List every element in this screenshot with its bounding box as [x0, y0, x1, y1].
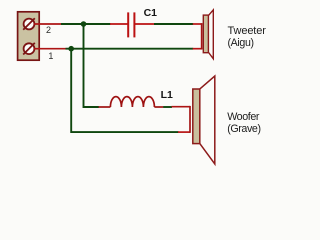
svg-text:Woofer: Woofer	[227, 111, 260, 123]
pin stub terminal 2	[34, 23, 61, 25]
pin stub terminal 1	[34, 48, 66, 50]
loudspeaker tweeter symbol	[202, 10, 214, 59]
woofer pin plus	[172, 106, 191, 108]
svg-text:(Aigu): (Aigu)	[228, 37, 254, 49]
svg-text:(Grave): (Grave)	[227, 123, 260, 135]
inductor L1	[99, 97, 164, 107]
terminal J1 screw 1	[23, 43, 35, 55]
wire C1 to tweeter plus	[154, 23, 193, 25]
junction node B	[68, 46, 74, 52]
wire node A down and across to L1	[84, 24, 99, 107]
terminal block J1 body	[18, 12, 40, 60]
junction node A	[81, 21, 87, 27]
wire terminal1 to tweeter minus	[66, 48, 194, 50]
svg-text:1: 1	[48, 51, 53, 61]
woofer pin minus	[178, 131, 190, 133]
tweeter pin minus	[193, 48, 203, 50]
svg-text:C1: C1	[144, 7, 158, 19]
terminal J1 screw 2	[23, 18, 35, 30]
svg-text:L1: L1	[161, 89, 173, 101]
loudspeaker woofer symbol	[190, 76, 215, 164]
capacitor C1	[110, 12, 155, 37]
svg-text:Tweeter: Tweeter	[228, 25, 267, 37]
svg-text:2: 2	[46, 25, 51, 35]
wire node B down and across to woofer minus	[71, 49, 178, 132]
wire L1 to woofer plus	[163, 106, 172, 108]
tweeter pin plus	[193, 23, 203, 25]
wire terminal2 to C1	[61, 23, 111, 25]
